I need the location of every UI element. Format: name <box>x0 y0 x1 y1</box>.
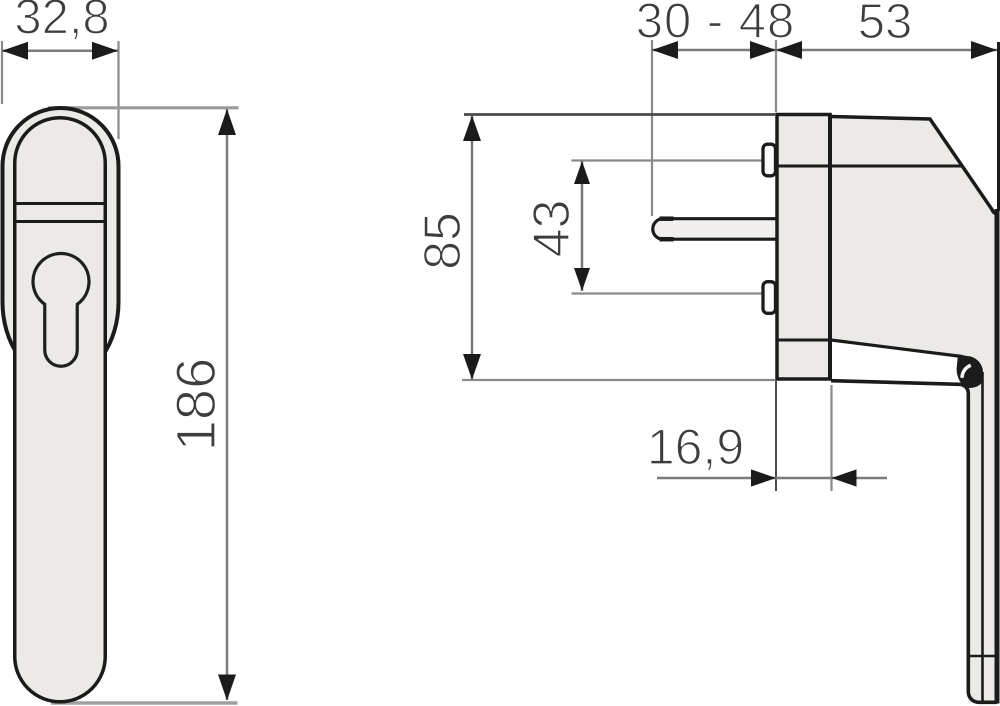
svg-text:43: 43 <box>523 200 581 258</box>
svg-text:85: 85 <box>414 212 472 270</box>
svg-text:16,9: 16,9 <box>647 419 744 475</box>
svg-text:30 - 48: 30 - 48 <box>636 0 796 49</box>
svg-text:32,8: 32,8 <box>14 0 109 45</box>
svg-text:53: 53 <box>858 0 913 49</box>
svg-text:186: 186 <box>164 358 227 451</box>
